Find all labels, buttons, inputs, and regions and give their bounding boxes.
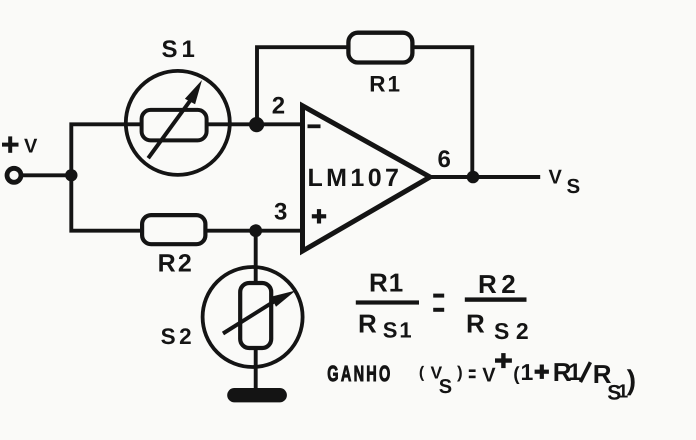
svg-text:3: 3 (274, 199, 287, 226)
sensor S2 circle (203, 267, 303, 367)
wire: op-amp output to VS (430, 175, 540, 179)
equation: GANHO (VS) = V+(1+R1/RS1) (327, 353, 636, 404)
wire: +V terminal to node A (20, 173, 71, 177)
svg-text:6: 6 (438, 146, 451, 173)
equation: left fraction bar (356, 300, 419, 304)
svg-text:2: 2 (272, 93, 285, 120)
svg-text:S2: S2 (494, 318, 535, 344)
resistor R1 (rounded rect) (348, 33, 412, 63)
svg-text:V: V (482, 364, 496, 386)
svg-text:S: S (439, 376, 452, 398)
svg-text:(: ( (513, 364, 520, 385)
svg-text:V: V (549, 166, 563, 188)
node at pin 3 (249, 224, 262, 237)
op-amp minus input mark (308, 124, 321, 128)
svg-text:R: R (358, 309, 377, 339)
svg-text:1: 1 (568, 359, 581, 386)
wire: node A down and right to op-amp pin 3 (through R2) (71, 175, 302, 230)
svg-text:(: ( (419, 365, 425, 382)
ground symbol (227, 388, 287, 402)
resistor R2 (rounded rect) (142, 215, 205, 244)
sensor S1 circle (126, 71, 230, 175)
terminal +V (open circle) (7, 168, 21, 182)
svg-text:S1: S1 (162, 36, 199, 63)
svg-text:R2: R2 (478, 269, 520, 299)
svg-text:R: R (466, 309, 485, 339)
svg-text:R1: R1 (369, 72, 402, 97)
sensor S1 arrow (148, 80, 202, 158)
wire: node A up and right to op-amp pin 2 (through S1) (71, 124, 302, 175)
svg-text:): ) (627, 365, 636, 396)
svg-text:GANHO: GANHO (327, 361, 392, 386)
node at output (467, 171, 480, 184)
svg-text:): ) (457, 363, 463, 382)
node at pin 2 (249, 117, 264, 132)
wire: feedback loop pin2 node up, across top (through R1), down to output node (257, 47, 472, 177)
equation: RS2 denominator (466, 309, 535, 344)
svg-text:V: V (24, 135, 38, 157)
sensor S2 arrow (223, 291, 296, 334)
label VS (549, 166, 581, 198)
op-amp plus input mark (312, 209, 326, 223)
svg-text:1: 1 (521, 359, 534, 385)
svg-text:S: S (567, 175, 581, 198)
svg-text:R2: R2 (158, 249, 194, 277)
wire: pin3 node down to ground (through S2) (254, 231, 258, 392)
svg-text:LM107: LM107 (308, 164, 403, 192)
label +V (2, 135, 38, 157)
node A (junction dot) (65, 169, 77, 181)
equation: equals sign (433, 294, 444, 312)
sensor S2 body (vertical rounded rect) (240, 283, 271, 348)
equation: right fraction bar (465, 297, 527, 301)
equation: RS1 denominator (358, 309, 414, 343)
svg-text:R1: R1 (369, 268, 404, 298)
op-amp U1 triangle (303, 106, 431, 251)
sensor S1 body (rounded rect) (142, 110, 207, 140)
svg-text:S1: S1 (383, 317, 414, 342)
svg-text:S2: S2 (161, 324, 196, 349)
